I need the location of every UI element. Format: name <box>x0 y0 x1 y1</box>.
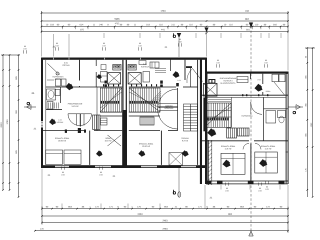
extension lines bottom <box>61 204 63 209</box>
wall horiz corridor bottom <box>41 130 86 132</box>
section line b vertical <box>178 38 180 57</box>
party wall upper <box>122 60 124 110</box>
wall outer top left-building <box>41 58 207 60</box>
svg-text:2.05: 2.05 <box>265 189 269 191</box>
svg-text:2.05: 2.05 <box>102 45 106 47</box>
svg-text:4.60 m2: 4.60 m2 <box>55 79 62 81</box>
section marker A bottom <box>249 231 253 236</box>
wall outer left <box>41 58 43 168</box>
blob chair unit1 corridor <box>65 83 73 90</box>
svg-text:KUHINJA: KUHINJA <box>141 65 150 68</box>
svg-text:1763: 1763 <box>160 11 166 13</box>
wall horiz unit3 upper2 <box>206 96 286 98</box>
dimension block right <box>306 48 308 197</box>
section marker a right <box>288 106 303 108</box>
kitchen unit1 <box>113 65 121 71</box>
fixtures unit3 room2 <box>272 74 278 82</box>
svg-text:2763: 2763 <box>162 229 168 231</box>
svg-text:5965: 5965 <box>114 19 120 21</box>
blob bed1 pillow <box>96 150 103 156</box>
svg-text:2.05: 2.05 <box>138 45 142 47</box>
blob door unit1 <box>78 128 81 133</box>
door swing unit1 bed2 <box>108 135 122 146</box>
svg-text:2033: 2033 <box>1 122 3 128</box>
wall horiz below stairs1 <box>100 115 122 117</box>
bathroom fixtures unit3 <box>266 111 276 124</box>
svg-text:2.05: 2.05 <box>257 79 260 81</box>
svg-text:2.05: 2.05 <box>99 174 103 176</box>
wall horiz unit3 mid <box>200 140 249 142</box>
party wall lower solid <box>122 110 127 168</box>
wall horiz unit3 stairwall <box>231 97 233 127</box>
wall vert room1 right <box>79 60 81 81</box>
wall vert unit2 partition2 <box>190 68 192 87</box>
door arc unit3 hall <box>251 102 262 114</box>
extension lines top <box>53 34 55 57</box>
svg-text:10.2 m2: 10.2 m2 <box>105 140 112 142</box>
dimension line top outer <box>42 12 289 14</box>
bed unit3 left <box>221 153 245 174</box>
dimension block left <box>2 55 4 190</box>
svg-text:5.40 m2: 5.40 m2 <box>72 106 79 108</box>
svg-text:11.6 m2: 11.6 m2 <box>225 148 232 150</box>
wall outer right unit3 <box>285 72 287 185</box>
section arrow at building corner <box>204 28 208 33</box>
wall vert unit2 partition <box>184 60 186 80</box>
wall vert bedrooms unit2 <box>160 131 162 165</box>
wall horiz corridor top <box>46 86 122 88</box>
svg-text:2.05: 2.05 <box>225 190 229 192</box>
door arc corridor unit1 <box>68 114 92 126</box>
stair flight unit2 <box>129 88 160 112</box>
door swing unit2 top <box>193 69 203 82</box>
blob unit3 bed1 <box>222 160 230 168</box>
bathroom fixtures unit1 <box>47 89 56 100</box>
shelf unit1 small <box>101 118 108 125</box>
wall vert bedrooms unit1 <box>89 131 91 165</box>
svg-text:1.04: 1.04 <box>177 80 180 82</box>
svg-text:KUPAONICA: KUPAONICA <box>241 114 253 117</box>
door swing room1 <box>48 64 59 74</box>
blob kitchen unit1 top <box>97 74 102 79</box>
svg-text:OSTAVA: OSTAVA <box>62 64 70 67</box>
wall outer top unit3 <box>206 72 288 74</box>
shaft xbox unit1 <box>108 73 121 84</box>
stair flight unit1 <box>100 88 121 112</box>
blob chair unit1 lower <box>49 119 56 125</box>
blob unit3 living <box>254 84 262 92</box>
blob unit3 mid <box>207 128 216 136</box>
wardrobe unit1 corridor <box>93 115 100 130</box>
radiator unit2 <box>140 117 154 125</box>
svg-text:1780: 1780 <box>7 119 9 125</box>
svg-text:2.05: 2.05 <box>61 174 65 176</box>
wall vert unit1 mid <box>95 60 97 66</box>
svg-text:2463: 2463 <box>162 220 168 222</box>
door marks corridor unit1 <box>65 130 67 133</box>
section marker b top <box>177 33 181 38</box>
section marker a left <box>24 106 36 108</box>
svg-text:12.60 m2: 12.60 m2 <box>142 146 150 148</box>
wall inner-face left <box>45 60 47 165</box>
svg-text:2.05: 2.05 <box>216 62 220 64</box>
wall vert corridor unit1 <box>96 87 98 131</box>
svg-text:2463: 2463 <box>137 214 143 216</box>
svg-text:2.05: 2.05 <box>264 62 268 64</box>
wall outer bottom unit3 with columns <box>206 180 288 182</box>
stair basement unit2 <box>184 104 198 131</box>
bed unit2 small <box>169 153 182 166</box>
beds unit1 bottom <box>46 150 63 164</box>
wall outer bottom left-building <box>41 165 205 168</box>
wall left of unit3 <box>200 58 202 185</box>
kitchen unit2 <box>128 65 136 71</box>
section line A vertical <box>250 22 252 237</box>
svg-text:2.05: 2.05 <box>23 48 27 50</box>
wall vert unit3 beds <box>250 143 252 180</box>
blob bed3 pillow <box>182 150 189 157</box>
svg-text:2.05: 2.05 <box>258 190 262 192</box>
dimension ticks top <box>41 26 43 28</box>
stair landing hatch unit2 <box>152 91 162 101</box>
wall vert living unit2 <box>177 88 179 131</box>
wall dashes above stairs <box>103 84 104 86</box>
svg-text:11.2 m2: 11.2 m2 <box>265 148 272 150</box>
stair flight unit3 <box>205 103 232 127</box>
section marker A top <box>249 23 253 28</box>
svg-text:2.05: 2.05 <box>178 41 182 43</box>
blob bed2 pillow <box>138 150 145 156</box>
svg-text:12.60 m2: 12.60 m2 <box>58 140 66 142</box>
wall horiz unit3 bath <box>264 108 286 110</box>
wall horiz bath unit1 <box>46 109 62 111</box>
door arcs unit3 beds <box>243 143 249 149</box>
svg-text:BORAVAK: BORAVAK <box>165 107 175 110</box>
shaft xbox unit3 <box>204 83 218 96</box>
wall right of unit2 <box>197 60 199 165</box>
wardrobe unit3 a <box>227 128 237 138</box>
fixtures unit2 top <box>150 62 159 68</box>
wall horiz below stairs2 <box>129 115 160 117</box>
door openings bottom wall <box>55 166 69 168</box>
wall vert unit3 bath <box>263 97 265 140</box>
wardrobe unit3 b <box>238 128 250 136</box>
table room1 <box>56 79 61 86</box>
svg-text:HODNIK: HODNIK <box>57 122 64 124</box>
svg-text:BLAGOVAONICA: BLAGOVAONICA <box>221 82 237 85</box>
door arc living unit2 <box>158 89 178 109</box>
section marker b bottom <box>178 192 181 198</box>
svg-text:8.2 m2: 8.2 m2 <box>182 140 188 142</box>
kitchen block unit3 <box>208 79 215 84</box>
bed unit3 right <box>255 152 277 173</box>
wall horiz unit3 upper <box>200 94 288 96</box>
dimension ticks bottom <box>41 208 43 210</box>
svg-text:2.05: 2.05 <box>55 45 59 47</box>
corridor lines unit3 <box>208 99 231 101</box>
wall hatched unit3 left lower <box>207 140 210 185</box>
shaft xbox unit2 <box>128 73 141 84</box>
wall left of unit3 inner <box>206 72 208 182</box>
wall vert bath unit1 <box>60 87 62 103</box>
wall vert unit3 rooms <box>262 74 264 84</box>
blob unit2 top <box>173 71 180 78</box>
blob unit3 bed2 <box>259 159 267 167</box>
dimension line bottom outer <box>42 208 288 210</box>
